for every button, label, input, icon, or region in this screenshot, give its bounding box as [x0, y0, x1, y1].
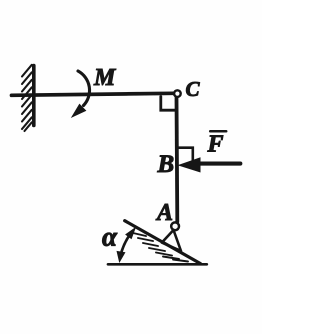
alpha arc bottom arrowhead — [117, 251, 126, 263]
wall hatching — [22, 65, 32, 131]
svg-text:A: A — [155, 200, 173, 226]
angle alpha arc — [120, 234, 130, 258]
incline hatching — [133, 233, 188, 262]
svg-text:F: F — [207, 132, 224, 158]
moment M arrowhead — [71, 104, 87, 118]
rod C-B-A — [175, 98, 180, 222]
svg-text:B: B — [157, 151, 175, 178]
pin A — [171, 222, 179, 230]
wall face line — [32, 66, 36, 126]
overbar of F — [210, 130, 226, 133]
force F arrowhead — [178, 157, 201, 172]
svg-text:α: α — [102, 222, 118, 252]
right-angle mark at B — [179, 148, 193, 162]
inclined surface — [125, 221, 201, 264]
svg-text:M: M — [93, 65, 117, 91]
svg-text:C: C — [186, 77, 201, 101]
ground baseline — [108, 263, 207, 266]
roller wedge at A — [162, 230, 181, 251]
right-angle mark at C — [161, 97, 176, 111]
pin C — [174, 90, 181, 97]
alpha arc top arrowhead — [125, 227, 136, 240]
moment M arc — [78, 71, 90, 106]
force F shaft — [197, 162, 241, 166]
beam (wall to C) — [12, 93, 174, 95]
